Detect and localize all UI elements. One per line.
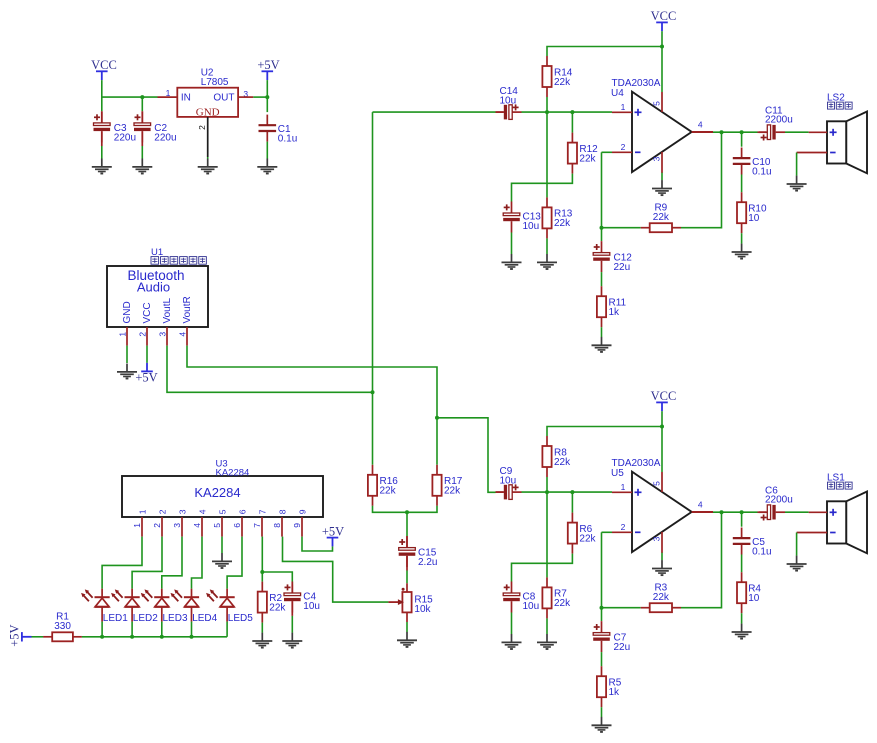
ground (397, 632, 417, 647)
wire (102, 537, 142, 589)
resistor R12 (568, 133, 598, 174)
wire (266, 97, 268, 112)
wire (226, 622, 228, 637)
wire (546, 492, 548, 577)
svg-text:2: 2 (152, 523, 162, 528)
ground (592, 337, 612, 352)
resistor R2 (258, 582, 287, 623)
wire (713, 131, 758, 133)
wire (601, 272, 603, 286)
wire (602, 151, 613, 153)
wire (785, 131, 809, 133)
ground (198, 159, 218, 174)
wire (601, 327, 603, 337)
svg-text:4: 4 (698, 499, 703, 509)
svg-text:2: 2 (157, 509, 167, 514)
wire (253, 96, 267, 98)
speaker LS2 (797, 92, 867, 173)
wire (132, 537, 162, 589)
wire (238, 96, 253, 98)
svg-text:LS1: LS1 (827, 472, 845, 483)
wire (547, 47, 662, 57)
wire (131, 622, 133, 637)
svg-text:4: 4 (197, 509, 207, 514)
resistor R4 (737, 572, 761, 613)
op-amp U5 (611, 458, 713, 553)
IC U3 KA2284 (122, 459, 323, 537)
capacitor C15 (399, 536, 438, 568)
wire (207, 157, 209, 159)
wire (602, 531, 613, 533)
svg-text:5: 5 (652, 101, 662, 106)
capacitor C9 (496, 466, 522, 499)
svg-text:2.2u: 2.2u (418, 557, 437, 568)
wire (661, 427, 663, 473)
wire (141, 111, 143, 123)
svg-text:22k: 22k (444, 486, 461, 497)
wire (741, 613, 743, 624)
svg-text:10u: 10u (500, 476, 517, 487)
resistor R9 (641, 203, 681, 233)
junction (600, 226, 604, 230)
wire (511, 233, 513, 255)
svg-text:22k: 22k (554, 218, 571, 229)
junction (740, 130, 744, 134)
svg-text:0.1u: 0.1u (752, 166, 771, 177)
svg-text:7: 7 (252, 523, 262, 528)
wire (601, 152, 603, 241)
svg-text:1: 1 (132, 523, 142, 528)
svg-text:VCC: VCC (651, 9, 677, 23)
wire (692, 131, 713, 133)
wire (437, 418, 496, 493)
capacitor C6 (759, 486, 793, 521)
svg-text:U5: U5 (611, 468, 624, 479)
power flag VCC (651, 389, 677, 411)
junction (435, 416, 439, 420)
wire (161, 622, 163, 637)
svg-text:1: 1 (137, 509, 147, 514)
wire (291, 585, 293, 593)
svg-text:220u: 220u (114, 133, 136, 144)
wire (187, 346, 437, 465)
wire (283, 537, 389, 603)
ground (592, 717, 612, 732)
wire (546, 477, 548, 492)
LED LED1 (81, 589, 128, 624)
svg-text:+5V: +5V (322, 524, 344, 538)
power flag +5V (322, 524, 344, 546)
svg-text:3: 3 (157, 332, 167, 337)
wire (146, 346, 148, 363)
svg-text:3: 3 (177, 509, 187, 514)
wire (546, 238, 548, 254)
wire (82, 636, 227, 638)
svg-text:2: 2 (137, 332, 147, 337)
wire (692, 511, 713, 513)
svg-text:1k: 1k (609, 687, 621, 698)
wire (602, 607, 641, 609)
power flag +5V (257, 58, 279, 80)
wire (512, 554, 573, 582)
wire (511, 613, 513, 635)
wire (713, 511, 758, 513)
svg-text:8: 8 (272, 523, 282, 528)
svg-text:VoutR: VoutR (182, 296, 193, 323)
svg-text:LED1: LED1 (103, 613, 128, 624)
wire (661, 47, 663, 93)
capacitor C10 (733, 148, 772, 178)
wire (372, 112, 374, 465)
bluetooth module U1 (107, 247, 208, 346)
svg-text:10k: 10k (414, 604, 431, 615)
wire (681, 132, 722, 228)
svg-text:22k: 22k (653, 212, 670, 223)
wire (601, 532, 603, 621)
wire (741, 233, 743, 244)
wire (101, 97, 103, 111)
resistor R1 (43, 612, 82, 642)
LED LED3 (141, 589, 188, 624)
svg-text:KA2284: KA2284 (194, 485, 240, 500)
ground (732, 624, 752, 639)
wire (571, 112, 573, 133)
capacitor C3 (94, 111, 137, 143)
wire (796, 533, 798, 556)
ground (252, 633, 272, 648)
power flag +5V (135, 363, 157, 385)
wire (406, 536, 408, 548)
resistor R8 (542, 436, 571, 477)
svg-text:0.1u: 0.1u (278, 133, 297, 144)
wire (496, 111, 504, 113)
ground (117, 364, 137, 379)
wire (546, 112, 548, 197)
svg-text:+5V: +5V (8, 624, 22, 646)
wire (601, 652, 603, 666)
wire (167, 346, 373, 393)
svg-text:22k: 22k (579, 533, 596, 544)
wire (141, 97, 143, 111)
svg-text:10u: 10u (523, 221, 540, 232)
potentiometer R15 (388, 583, 433, 622)
LED LED2 (111, 589, 158, 624)
svg-text:9: 9 (297, 509, 307, 514)
resistor R13 (542, 197, 572, 238)
wire (785, 511, 809, 513)
svg-text:22u: 22u (614, 642, 631, 653)
svg-text:Audio: Audio (137, 279, 170, 294)
wire (227, 537, 242, 589)
junction (140, 95, 144, 99)
wire (373, 506, 438, 513)
wire (546, 97, 548, 112)
wire (602, 227, 641, 229)
ground (132, 159, 152, 174)
resistor R7 (542, 577, 571, 618)
svg-text:5: 5 (652, 481, 662, 486)
svg-text:0.1u: 0.1u (752, 546, 771, 557)
svg-text:8: 8 (277, 509, 287, 514)
svg-text:9: 9 (292, 523, 302, 528)
wire (32, 636, 44, 638)
wire (266, 142, 268, 159)
wire (101, 132, 103, 147)
resistor R17 (432, 465, 462, 506)
ground (787, 176, 807, 191)
svg-text:3: 3 (652, 536, 662, 541)
wire (601, 707, 603, 717)
junction (130, 635, 134, 639)
svg-text:4: 4 (177, 332, 187, 337)
wire (221, 537, 223, 553)
svg-text:1: 1 (621, 482, 626, 492)
wire (661, 173, 663, 181)
svg-text:+5V: +5V (257, 58, 279, 72)
svg-text:KA2284: KA2284 (216, 467, 250, 478)
svg-text:IN: IN (181, 93, 191, 104)
wire (191, 622, 193, 637)
svg-text:22u: 22u (614, 262, 631, 273)
wire (758, 131, 767, 133)
svg-text:VCC: VCC (91, 58, 117, 72)
svg-text:VoutL: VoutL (162, 297, 173, 323)
svg-text:LED3: LED3 (163, 613, 188, 624)
junction (265, 95, 269, 99)
svg-text:10: 10 (748, 593, 760, 604)
junction (740, 510, 744, 514)
junction (100, 635, 104, 639)
ground (92, 159, 112, 174)
power flag VCC (651, 9, 677, 31)
svg-text:1: 1 (117, 332, 127, 337)
svg-text:1k: 1k (609, 307, 621, 318)
wire (262, 572, 292, 585)
svg-text:10u: 10u (523, 601, 540, 612)
svg-text:VCC: VCC (651, 389, 677, 403)
ground (502, 634, 522, 649)
wire (496, 491, 504, 493)
svg-text:GND: GND (196, 107, 220, 119)
wire (102, 80, 158, 97)
svg-text:2: 2 (621, 142, 626, 152)
junction (545, 490, 549, 494)
junction (600, 606, 604, 610)
wire (266, 80, 268, 97)
junction (190, 635, 194, 639)
svg-text:22k: 22k (554, 77, 571, 88)
svg-text:6: 6 (237, 509, 247, 514)
svg-text:22k: 22k (653, 592, 670, 603)
op-amp U4 (611, 78, 713, 173)
svg-text:220u: 220u (154, 133, 176, 144)
svg-text:+5V: +5V (135, 371, 157, 385)
resistor R10 (737, 192, 767, 233)
wire (162, 537, 182, 589)
regulator U2 (166, 68, 249, 158)
svg-text:VCC: VCC (142, 302, 153, 323)
wire (547, 427, 662, 437)
junction (405, 510, 409, 514)
svg-text:1: 1 (621, 102, 626, 112)
svg-text:2: 2 (197, 125, 207, 130)
resistor R5 (597, 666, 622, 707)
wire (101, 146, 103, 159)
ground (212, 553, 232, 568)
wire (796, 153, 798, 176)
wire (741, 512, 743, 527)
junction (660, 425, 664, 429)
resistor R6 (568, 513, 597, 554)
wire (158, 96, 178, 98)
ground (732, 244, 752, 259)
junction (160, 635, 164, 639)
svg-text:2200u: 2200u (765, 495, 793, 506)
ground (652, 560, 672, 575)
wire (406, 512, 408, 536)
svg-text:4: 4 (192, 523, 202, 528)
capacitor C8 (503, 582, 539, 613)
wire (571, 492, 573, 512)
svg-text:7: 7 (257, 509, 267, 514)
resistor R3 (641, 583, 681, 613)
wire (522, 111, 613, 113)
svg-text:10u: 10u (303, 601, 320, 612)
ground (537, 634, 557, 649)
ground (257, 159, 277, 174)
wire (141, 132, 143, 147)
svg-text:22k: 22k (554, 457, 571, 468)
svg-text:330: 330 (54, 621, 71, 632)
capacitor C14 (496, 86, 522, 119)
wire (681, 512, 722, 608)
svg-text:U4: U4 (611, 88, 624, 99)
junction (371, 390, 375, 394)
wire (406, 571, 408, 584)
svg-text:2: 2 (621, 522, 626, 532)
resistor R16 (368, 465, 398, 506)
wire (291, 601, 293, 616)
svg-text:LED5: LED5 (228, 613, 253, 624)
wire (758, 511, 767, 513)
junction (720, 130, 724, 134)
svg-text:22k: 22k (269, 602, 286, 613)
capacitor C11 (759, 106, 793, 141)
svg-text:2200u: 2200u (765, 115, 793, 126)
ground (787, 556, 807, 571)
ground (502, 254, 522, 269)
wire (546, 618, 548, 634)
wire (261, 537, 263, 582)
svg-text:22k: 22k (380, 486, 397, 497)
svg-text:3: 3 (172, 523, 182, 528)
wire (741, 132, 743, 147)
ground (537, 254, 557, 269)
svg-text:LED2: LED2 (133, 613, 158, 624)
junction (720, 510, 724, 514)
svg-text:10u: 10u (500, 96, 517, 107)
svg-text:4: 4 (698, 119, 703, 129)
svg-text:5: 5 (217, 509, 227, 514)
svg-text:5: 5 (212, 523, 222, 528)
junction (660, 45, 664, 49)
LED LED5 (206, 589, 253, 624)
capacitor C12 (593, 241, 632, 273)
svg-text:LED4: LED4 (192, 613, 217, 624)
wire (302, 537, 333, 551)
wire (661, 553, 663, 561)
wire (661, 31, 663, 46)
wire (101, 111, 103, 123)
wire (101, 622, 103, 637)
wire (512, 174, 573, 202)
junction (570, 110, 574, 114)
junction (260, 570, 264, 574)
svg-text:L7805: L7805 (201, 77, 229, 88)
svg-text:6: 6 (232, 523, 242, 528)
wire (261, 623, 263, 633)
speaker LS1 (797, 472, 867, 553)
capacitor C7 (593, 621, 630, 653)
svg-text:3: 3 (652, 156, 662, 161)
wire (741, 175, 743, 193)
power flag +5V (8, 624, 32, 646)
wire (522, 491, 613, 493)
wire (406, 556, 408, 571)
capacitor C4 (284, 582, 320, 613)
svg-text:GND: GND (122, 301, 133, 323)
svg-text:1: 1 (166, 88, 171, 98)
svg-text:22k: 22k (579, 153, 596, 164)
resistor R11 (597, 286, 627, 327)
resistor R14 (542, 56, 572, 97)
wire (406, 622, 408, 632)
capacitor C2 (134, 111, 177, 143)
wire (141, 146, 143, 159)
wire (291, 616, 293, 633)
power flag VCC (91, 58, 117, 80)
wire (661, 411, 663, 426)
ground (652, 180, 672, 195)
svg-text:22k: 22k (554, 598, 571, 609)
wire (741, 555, 743, 573)
svg-text:OUT: OUT (213, 93, 234, 104)
svg-text:10: 10 (748, 213, 760, 224)
junction (545, 110, 549, 114)
wire (192, 537, 203, 589)
wire (126, 346, 128, 363)
capacitor C13 (503, 202, 541, 233)
wire (373, 111, 496, 113)
ground (282, 633, 302, 648)
LED LED4 (171, 589, 218, 624)
capacitor C5 (733, 528, 772, 558)
junction (570, 490, 574, 494)
capacitor C1 (259, 115, 298, 145)
